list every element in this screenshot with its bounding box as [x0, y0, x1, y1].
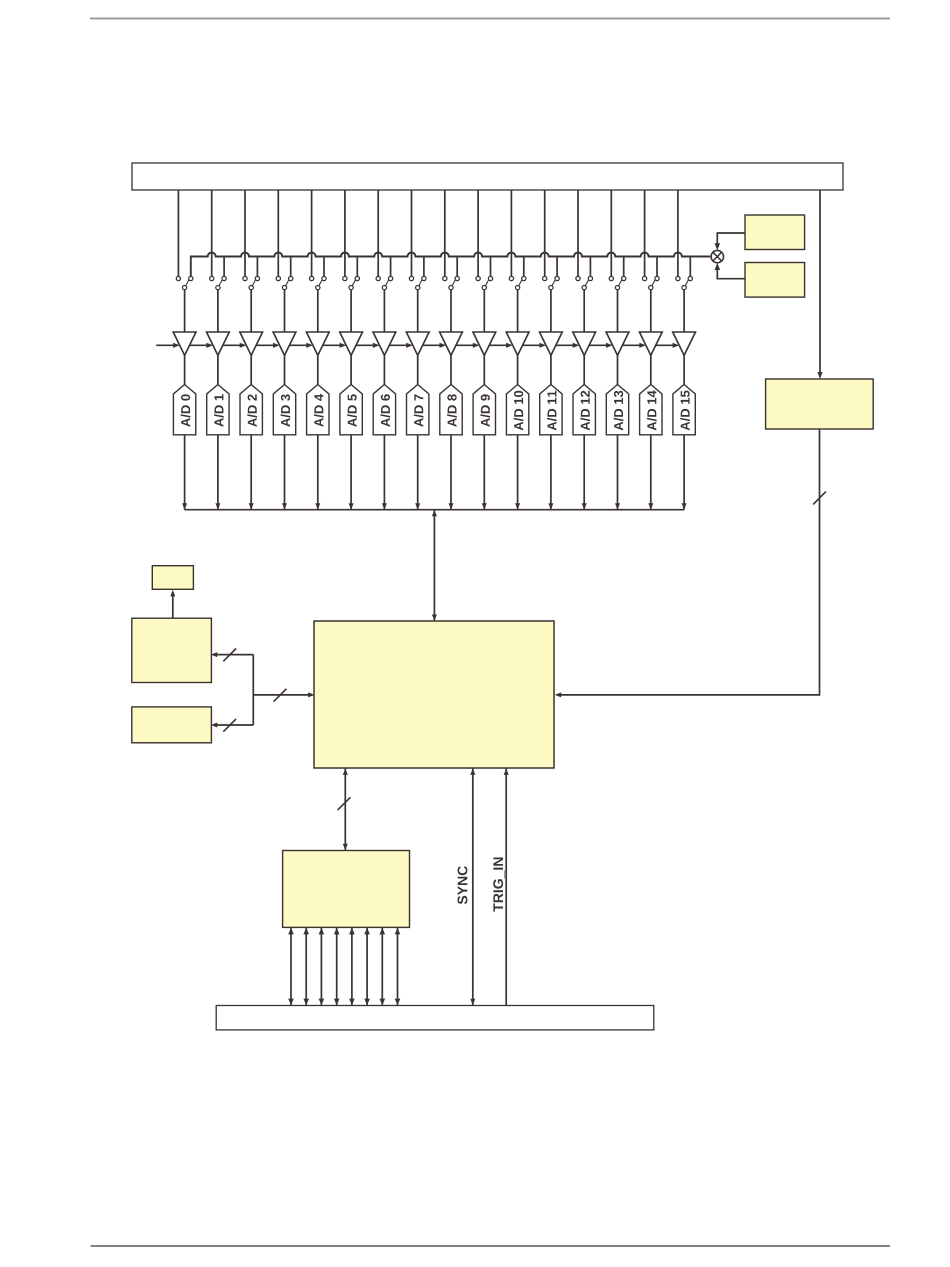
mux scan arrow into A1	[190, 343, 214, 348]
wire channel 13 input	[610, 190, 612, 276]
wire A/D 3 to data bus	[282, 435, 287, 510]
switch SW4	[309, 276, 326, 289]
mux scan arrow into A14	[622, 343, 646, 348]
PCI bus wire 4	[349, 927, 355, 1005]
memory junction wire	[252, 655, 254, 725]
wire A/D 14 to data bus	[648, 435, 653, 510]
wire channel 6 input	[377, 190, 379, 276]
A/D data bus	[185, 509, 684, 511]
switch SW14	[642, 276, 659, 289]
input connector bar	[132, 163, 843, 190]
wire switch 3 to amplifier	[284, 290, 286, 332]
wire channel 0 input	[177, 190, 179, 276]
wire amplifier 9 to A/D	[483, 355, 485, 384]
bus width slash (memory 2 wire)	[223, 719, 236, 732]
A/D converter 11	[540, 385, 562, 435]
wire channel 2 cal stub	[256, 257, 258, 277]
A/D converter 8	[440, 385, 462, 435]
multiplier node	[711, 250, 723, 262]
A/D converter 2	[240, 385, 262, 435]
memory box	[132, 618, 212, 682]
mux scan arrow into A2	[223, 343, 247, 348]
switch SW1	[210, 276, 227, 289]
wire amplifier 13 to A/D	[617, 355, 619, 384]
mux scan arrow into A9	[456, 343, 480, 348]
amplifier A12	[573, 332, 596, 355]
PCI bus wire 7	[395, 927, 401, 1005]
amplifier A15	[673, 332, 696, 355]
amplifier A11	[540, 332, 563, 355]
wire connector to gain block	[817, 190, 822, 379]
amplifier A13	[606, 332, 629, 355]
amplifier A3	[273, 332, 296, 355]
switch SW11	[543, 276, 560, 289]
PCI bus wire 2	[319, 927, 325, 1005]
wire switch 9 to amplifier	[483, 290, 485, 332]
mux scan arrow into A12	[556, 343, 580, 348]
wire cal reference 2 to multiplier	[715, 263, 746, 279]
wire amplifier 8 to A/D	[450, 355, 452, 384]
wire A/D 7 to data bus	[415, 435, 420, 510]
A/D converter 3	[273, 385, 295, 435]
TRIG_IN wire	[504, 768, 509, 1006]
gain block	[766, 379, 874, 429]
wire channel 6 cal stub	[390, 257, 392, 277]
amplifier A10	[506, 332, 529, 355]
wire switch 0 to amplifier	[184, 290, 186, 332]
wire channel 10 input	[510, 190, 512, 276]
wire channel 7 cal stub	[423, 257, 425, 277]
SYNC label	[458, 866, 468, 904]
wire switch 2 to amplifier	[250, 290, 252, 332]
PCI interface box	[283, 851, 410, 928]
mux scan arrow into A13	[589, 343, 613, 348]
amplifier A5	[340, 332, 363, 355]
wire amplifier 7 to A/D	[417, 355, 419, 384]
A/D converter 13	[606, 385, 628, 435]
bus width slash (memory wire)	[223, 649, 236, 662]
TRIG_IN label	[493, 858, 505, 912]
A/D converter 14	[640, 385, 662, 435]
mux scan arrow into A6	[356, 343, 380, 348]
wire channel 5 cal stub	[356, 257, 358, 277]
wire channel 2 input	[244, 190, 246, 276]
wire switch 11 to amplifier	[550, 290, 552, 332]
wire switch 10 to amplifier	[517, 290, 519, 332]
wire channel 3 cal stub	[290, 257, 292, 277]
wire amplifier 4 to A/D	[317, 355, 319, 384]
PCI bus wire 1	[303, 927, 309, 1005]
bus width slash (controller wire)	[274, 689, 287, 702]
wire channel 1 input	[211, 190, 213, 276]
bus width slash (PCI wire)	[338, 797, 351, 810]
wire amplifier 15 to A/D	[683, 355, 685, 384]
wire switch 14 to amplifier	[650, 290, 652, 332]
switch SW6	[376, 276, 393, 289]
wire channel 13 cal stub	[623, 257, 625, 277]
wire channel 12 input	[577, 190, 579, 276]
A/D converter 12	[573, 385, 595, 435]
mux scan arrow into A10	[489, 343, 513, 348]
controller box	[314, 621, 554, 768]
switch SW0	[176, 276, 193, 289]
PCI bus wire 5	[364, 927, 370, 1005]
wire channel 10 cal stub	[523, 257, 525, 277]
bus width slash (gain wire)	[813, 492, 826, 505]
wire amplifier 6 to A/D	[383, 355, 385, 384]
PCI bus wire 0	[288, 927, 294, 1005]
wire channel 1 cal stub	[223, 257, 225, 277]
wire switch 15 to amplifier	[683, 290, 685, 332]
wire gain block to controller	[555, 429, 820, 697]
A/D converter 10	[506, 385, 528, 435]
switch SW13	[609, 276, 626, 289]
amplifier A14	[639, 332, 662, 355]
wire channel 15 input	[677, 190, 679, 276]
PCI bus wire 6	[380, 927, 386, 1005]
wire amplifier 2 to A/D	[250, 355, 252, 384]
wire A/D 5 to data bus	[349, 435, 354, 510]
mux scan arrow into A11	[523, 343, 547, 348]
wire amplifier 1 to A/D	[217, 355, 219, 384]
wire channel 5 input	[344, 190, 346, 276]
amplifier A6	[373, 332, 396, 355]
PCI connector bar	[216, 1006, 654, 1030]
wire A/D 1 to data bus	[215, 435, 220, 510]
wire amplifier 0 to A/D	[184, 355, 186, 384]
SYNC wire	[470, 768, 475, 1006]
wire switch 13 to amplifier	[617, 290, 619, 332]
A/D converter 0	[173, 385, 195, 435]
wire A/D 9 to data bus	[482, 435, 487, 510]
A/D converter 15	[673, 385, 695, 435]
wire channel 4 cal stub	[323, 257, 325, 277]
wire channel 3 input	[277, 190, 279, 276]
A/D converter 6	[373, 385, 395, 435]
amplifier A2	[240, 332, 263, 355]
A/D converter 9	[473, 385, 495, 435]
mux scan arrow into A8	[423, 343, 447, 348]
calibration bus	[191, 252, 711, 276]
wire data bus to controller	[432, 510, 437, 621]
wire controller to memory junction	[253, 692, 314, 697]
wire channel 11 cal stub	[556, 257, 558, 277]
wire controller to PCI interface	[343, 768, 348, 851]
wire switch 1 to amplifier	[217, 290, 219, 332]
wire junction to memory box 2	[211, 723, 254, 728]
amplifier A1	[207, 332, 230, 355]
wire switch 4 to amplifier	[317, 290, 319, 332]
mux scan arrow into A3	[256, 343, 280, 348]
mux scan arrow into A15	[656, 343, 680, 348]
A/D converter 5	[340, 385, 362, 435]
switch SW3	[276, 276, 293, 289]
wire A/D 2 to data bus	[249, 435, 254, 510]
wire A/D 15 to data bus	[682, 435, 687, 510]
switch SW9	[476, 276, 493, 289]
switch SW15	[676, 276, 693, 289]
wire amplifier 11 to A/D	[550, 355, 552, 384]
wire amplifier 14 to A/D	[650, 355, 652, 384]
wire amplifier 10 to A/D	[517, 355, 519, 384]
memory box 2	[132, 707, 212, 743]
wire channel 9 cal stub	[490, 257, 492, 277]
switch SW10	[509, 276, 526, 289]
A/D converter 7	[407, 385, 429, 435]
switch SW2	[243, 276, 260, 289]
wire A/D 4 to data bus	[315, 435, 320, 510]
wire amplifier 12 to A/D	[583, 355, 585, 384]
wire A/D 13 to data bus	[615, 435, 620, 510]
wire A/D 11 to data bus	[548, 435, 553, 510]
wire channel 8 input	[444, 190, 446, 276]
A/D converter 4	[307, 385, 329, 435]
switch SW7	[409, 276, 426, 289]
wire channel 4 input	[311, 190, 313, 276]
wire channel 8 cal stub	[456, 257, 458, 277]
wire channel 15 cal stub	[689, 257, 691, 277]
calibration reference box 2	[745, 263, 805, 298]
A/D converter 1	[207, 385, 229, 435]
amplifier A8	[440, 332, 463, 355]
wire A/D 10 to data bus	[515, 435, 520, 510]
amplifier A7	[406, 332, 429, 355]
wire switch 12 to amplifier	[583, 290, 585, 332]
mux scan arrow into A7	[389, 343, 413, 348]
wire channel 12 cal stub	[589, 257, 591, 277]
wire channel 11 input	[544, 190, 546, 276]
wire switch 8 to amplifier	[450, 290, 452, 332]
switch SW5	[343, 276, 360, 289]
wire switch 5 to amplifier	[350, 290, 352, 332]
wire junction to memory box	[211, 652, 254, 657]
mux scan arrow into A0	[156, 343, 180, 348]
wire A/D 6 to data bus	[382, 435, 387, 510]
switch SW8	[443, 276, 460, 289]
wire cal reference 1 to multiplier	[715, 233, 746, 250]
wire A/D 8 to data bus	[449, 435, 454, 510]
wire channel 14 input	[644, 190, 646, 276]
amplifier A0	[173, 332, 196, 355]
switch SW12	[576, 276, 593, 289]
calibration reference box 1	[745, 215, 805, 250]
wire channel 14 cal stub	[656, 257, 658, 277]
amplifier A9	[473, 332, 496, 355]
wire A/D 0 to data bus	[182, 435, 187, 510]
wire switch 6 to amplifier	[383, 290, 385, 332]
mux scan arrow into A5	[323, 343, 347, 348]
wire switch 7 to amplifier	[417, 290, 419, 332]
mux scan arrow into A4	[289, 343, 313, 348]
wire channel 7 input	[411, 190, 413, 276]
wire A/D 12 to data bus	[582, 435, 587, 510]
wire channel 9 input	[477, 190, 479, 276]
counter box	[152, 566, 193, 590]
wire amplifier 3 to A/D	[284, 355, 286, 384]
wire memory to counter box	[170, 590, 175, 618]
amplifier A4	[306, 332, 329, 355]
PCI bus wire 3	[334, 927, 340, 1005]
wire amplifier 5 to A/D	[350, 355, 352, 384]
